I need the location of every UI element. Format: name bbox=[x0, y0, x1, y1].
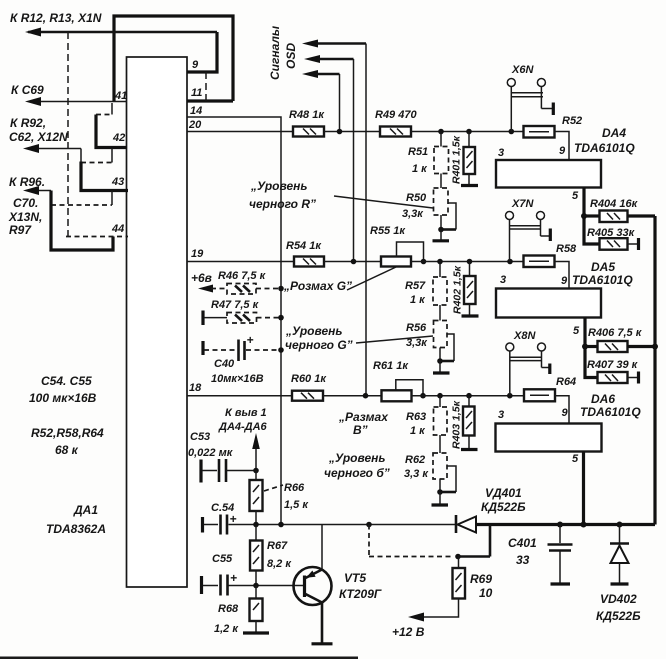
ground R56 bbox=[439, 361, 441, 372]
arrow +6v bbox=[198, 285, 213, 293]
svg-text:42: 42 bbox=[112, 132, 125, 144]
resistor R47 dashed bbox=[227, 313, 257, 324]
svg-text:R50: R50 bbox=[406, 192, 427, 204]
wire R64 to pin9 bbox=[555, 396, 569, 424]
wire K C69 line pin41 bbox=[29, 101, 127, 103]
wire pin 20 row bbox=[187, 131, 293, 133]
wire R50 wiper bbox=[448, 203, 456, 230]
capacitor C40 bbox=[237, 340, 240, 362]
node R402 bbox=[467, 259, 473, 265]
dashed link pin9-pin11 bbox=[205, 72, 207, 101]
OSD arrow 2 bbox=[304, 55, 320, 63]
svg-text:X6N: X6N bbox=[511, 64, 534, 76]
resistor R401 bbox=[468, 132, 470, 148]
svg-text:ТDА8362А: ТDА8362А bbox=[46, 522, 106, 536]
wire K R92 line bbox=[27, 148, 81, 150]
svg-text:1 к: 1 к bbox=[412, 163, 428, 175]
node VD402 bbox=[617, 522, 623, 528]
svg-text:41: 41 bbox=[114, 90, 127, 102]
resistor R404 bbox=[600, 211, 628, 223]
svg-text:„Уровень: „Уровень bbox=[328, 451, 385, 465]
ground R50 bbox=[440, 230, 442, 241]
wire R404 to bus bbox=[628, 214, 656, 217]
svg-text:„Размах: „Размах bbox=[338, 410, 389, 424]
resistor R69 bbox=[458, 557, 460, 569]
svg-text:КД522Б: КД522Б bbox=[481, 500, 526, 514]
resistor R51 dashed bbox=[440, 132, 442, 147]
svg-text:33: 33 bbox=[516, 553, 530, 567]
dashed jog pin42 bbox=[96, 114, 112, 116]
svg-text:DA5: DA5 bbox=[591, 260, 615, 274]
svg-text:„Уровень: „Уровень bbox=[285, 324, 342, 338]
svg-text:С401: С401 bbox=[508, 536, 537, 550]
wire link up to pin42 line bbox=[111, 149, 113, 163]
resistor R402 bbox=[469, 262, 471, 277]
node R56 bbox=[437, 358, 443, 364]
svg-text:1 к: 1 к bbox=[410, 294, 426, 306]
wire down from K R92 bbox=[80, 149, 82, 164]
right bus bbox=[653, 216, 656, 525]
wire pin 18 row bbox=[187, 395, 292, 397]
arrow K R12 bbox=[25, 28, 41, 37]
svg-text:R402 1,5к: R402 1,5к bbox=[452, 265, 464, 314]
svg-text:VD402: VD402 bbox=[600, 592, 637, 606]
svg-text:R49 470: R49 470 bbox=[375, 109, 417, 121]
svg-text:Сигналы: Сигналы bbox=[268, 25, 282, 80]
arrow K R92 bbox=[23, 144, 39, 153]
arrow K C69 bbox=[25, 97, 41, 106]
resistor R50 dashed bbox=[440, 174, 442, 189]
wire pin5 DA5 bbox=[585, 318, 598, 378]
svg-text:С53: С53 bbox=[190, 431, 210, 443]
svg-text:R68: R68 bbox=[218, 603, 239, 615]
wire pin 42 bbox=[96, 115, 127, 148]
svg-text:+6в: +6в bbox=[191, 271, 212, 285]
svg-text:ТDА6101Q: ТDА6101Q bbox=[574, 141, 635, 155]
node C401 bbox=[557, 522, 563, 528]
wire pin5 DA4 bbox=[584, 188, 600, 244]
wire bbox=[411, 261, 524, 263]
diode VD402 bbox=[619, 525, 621, 544]
svg-text:ТDА6101Q: ТDА6101Q bbox=[580, 405, 641, 419]
svg-text:R406 7,5 к: R406 7,5 к bbox=[588, 327, 643, 339]
op-amp DA5 bbox=[496, 289, 601, 318]
terminal C54 bbox=[201, 517, 204, 533]
svg-text:К выв 1: К выв 1 bbox=[225, 407, 267, 419]
node C40 bbox=[278, 347, 284, 353]
node OSD2 bbox=[351, 259, 357, 265]
svg-text:С70.: С70. bbox=[13, 196, 38, 210]
svg-text:14: 14 bbox=[190, 105, 202, 117]
capacitor C54 bbox=[219, 515, 222, 535]
OSD arrow 1 bbox=[302, 40, 318, 48]
svg-text:R54 1к: R54 1к bbox=[286, 240, 322, 252]
svg-text:R405 33к: R405 33к bbox=[587, 227, 636, 239]
svg-text:+: + bbox=[230, 512, 237, 526]
svg-text:18: 18 bbox=[189, 382, 202, 394]
svg-text:„Розмах G”: „Розмах G” bbox=[283, 279, 352, 293]
svg-text:R52,R58,R64: R52,R58,R64 bbox=[31, 426, 104, 440]
svg-text:R404 16к: R404 16к bbox=[590, 198, 639, 210]
OSD wire 2 vertical bbox=[353, 59, 355, 262]
svg-text:„Уровень: „Уровень bbox=[250, 179, 307, 193]
wire thick K R96 to pin44 bbox=[51, 191, 113, 251]
resistor R66 bbox=[255, 471, 257, 481]
svg-text:DA6: DA6 bbox=[591, 392, 615, 406]
resistor R57 dashed bbox=[439, 262, 441, 278]
svg-text:5: 5 bbox=[572, 453, 579, 465]
svg-text:R58: R58 bbox=[556, 243, 577, 255]
svg-text:С62, X12N: С62, X12N bbox=[9, 130, 68, 144]
OSD arrow 3 bbox=[302, 70, 318, 78]
pointer R66 bbox=[264, 485, 283, 491]
IC DA1 body bbox=[127, 57, 188, 587]
arrow K R96 bbox=[23, 186, 39, 195]
wire pin 19 row bbox=[187, 261, 294, 263]
terminal C53 bbox=[199, 460, 202, 483]
wire R69 link bbox=[458, 555, 490, 558]
svg-text:черного G”: черного G” bbox=[285, 338, 353, 352]
resistor R46 dashed bbox=[227, 284, 256, 295]
svg-text:8,2 к: 8,2 к bbox=[267, 558, 292, 570]
svg-text:С40: С40 bbox=[214, 358, 235, 370]
svg-text:R403 1,5к: R403 1,5к bbox=[451, 400, 463, 449]
resistor R405 bbox=[600, 238, 628, 250]
svg-text:3: 3 bbox=[500, 274, 506, 286]
svg-text:68 к: 68 к bbox=[55, 443, 79, 457]
svg-text:5: 5 bbox=[572, 190, 579, 202]
svg-text:R47 7,5 к: R47 7,5 к bbox=[211, 299, 260, 311]
node C55/base bbox=[253, 583, 259, 589]
node R69 top bbox=[455, 554, 461, 560]
svg-text:R56: R56 bbox=[406, 322, 427, 334]
wire bbox=[324, 131, 380, 133]
node R47 bbox=[278, 315, 284, 321]
wire R50 bottom bbox=[440, 215, 442, 230]
svg-text:9: 9 bbox=[559, 145, 566, 157]
svg-text:1,5 к: 1,5 к bbox=[284, 499, 309, 511]
terminal R47 bbox=[201, 311, 204, 326]
terminal R405 bbox=[628, 243, 638, 245]
svg-text:R69: R69 bbox=[470, 572, 492, 586]
svg-text:R97: R97 bbox=[9, 223, 32, 237]
svg-text:R46 7,5 к: R46 7,5 к bbox=[218, 270, 267, 282]
svg-text:1,2 к: 1,2 к bbox=[214, 623, 239, 635]
dashed horiz net 43 bbox=[51, 204, 112, 206]
wire pin5 DA6 bbox=[582, 452, 585, 525]
wire R406 to bus bbox=[628, 345, 656, 348]
resistor R407 bbox=[598, 372, 628, 383]
resistor R54 bbox=[294, 257, 324, 267]
svg-text:В”: В” bbox=[353, 423, 368, 437]
svg-text:черного б”: черного б” bbox=[324, 466, 390, 480]
pointer line G1 bbox=[347, 267, 396, 290]
OSD wire 1 vertical bbox=[365, 44, 367, 396]
node R401 bbox=[466, 129, 472, 135]
wire R62 wiper bbox=[447, 466, 456, 492]
top power bus loop bbox=[114, 16, 233, 101]
wire R56 bottom bbox=[439, 348, 441, 362]
resistor R55 trimmer bbox=[381, 257, 411, 267]
svg-text:С.54: С.54 bbox=[211, 502, 234, 514]
svg-text:VД401: VД401 bbox=[485, 486, 522, 500]
svg-text:19: 19 bbox=[191, 248, 204, 260]
pointer line R bbox=[334, 196, 433, 208]
dashed drop to R69 bbox=[368, 525, 370, 557]
node dash drop bbox=[366, 522, 372, 528]
node OSD3 bbox=[337, 129, 343, 135]
svg-text:DA4: DA4 bbox=[602, 126, 626, 140]
op-amp DA4 bbox=[496, 160, 601, 188]
wire thick to pin 43 bbox=[81, 162, 128, 191]
resistor R61 trimmer bbox=[382, 390, 412, 401]
wire R69 to +12V bbox=[413, 599, 459, 618]
svg-text:ТDА6101Q: ТDА6101Q bbox=[572, 273, 633, 287]
resistor R56 dashed bbox=[439, 305, 441, 321]
resistor R406 bbox=[598, 341, 628, 352]
wire R46 right bbox=[256, 288, 281, 290]
svg-text:VТ5: VТ5 bbox=[344, 571, 366, 585]
svg-text:+12 В: +12 В bbox=[392, 625, 425, 639]
wire collector ground bbox=[321, 603, 324, 643]
svg-text:R55 1к: R55 1к bbox=[370, 225, 406, 237]
svg-text:OSD: OSD bbox=[284, 43, 298, 69]
svg-text:R66: R66 bbox=[284, 482, 305, 494]
wire bbox=[323, 395, 382, 397]
wire base net row C54 bbox=[229, 524, 457, 526]
svg-text:R62: R62 bbox=[405, 454, 425, 466]
wire link pin43-dash bbox=[111, 191, 113, 206]
node R62 bbox=[437, 489, 443, 495]
wire VD401 to bus bbox=[476, 523, 655, 526]
svg-text:С55: С55 bbox=[212, 553, 233, 565]
svg-text:R52: R52 bbox=[562, 115, 582, 127]
diode VD401 bbox=[455, 515, 458, 533]
capacitor C401 bbox=[559, 525, 561, 544]
resistor R64 bbox=[524, 389, 555, 401]
svg-text:X8N: X8N bbox=[513, 330, 536, 342]
node R55 tap bbox=[421, 259, 427, 265]
node R46 bbox=[278, 286, 284, 292]
svg-text:КД522Б: КД522Б bbox=[596, 609, 641, 623]
svg-text:К R96.: К R96. bbox=[9, 175, 45, 189]
capacitor C53 bbox=[218, 459, 221, 482]
svg-text:+: + bbox=[230, 571, 237, 585]
dashed link to pin42 bbox=[81, 162, 112, 164]
wire C40 right bbox=[246, 349, 281, 351]
wire R62 bottom bbox=[439, 479, 441, 492]
svg-text:3: 3 bbox=[498, 147, 504, 159]
svg-text:100 мк×16В: 100 мк×16В bbox=[29, 391, 97, 405]
svg-text:5: 5 bbox=[573, 325, 580, 337]
ground R402 bbox=[469, 304, 471, 315]
resistor R49 bbox=[380, 127, 411, 137]
svg-text:С54. С55: С54. С55 bbox=[41, 374, 92, 388]
resistor R62 dashed bbox=[439, 435, 441, 453]
node X7N/pin3 bbox=[507, 259, 513, 265]
svg-text:20: 20 bbox=[188, 119, 202, 131]
svg-text:44: 44 bbox=[111, 223, 124, 235]
svg-text:R67: R67 bbox=[267, 540, 288, 552]
node R61 tap bbox=[420, 393, 426, 399]
svg-text:R407 39 к: R407 39 к bbox=[587, 359, 639, 371]
resistor R58 bbox=[524, 256, 555, 268]
svg-text:черного R”: черного R” bbox=[249, 197, 316, 211]
wire R47 right bbox=[257, 317, 282, 319]
svg-text:К С69: К С69 bbox=[11, 83, 44, 97]
svg-text:9: 9 bbox=[192, 59, 199, 71]
node X8N/pin3 bbox=[507, 393, 513, 399]
svg-text:R64: R64 bbox=[556, 376, 576, 388]
wire pin 14 bbox=[187, 117, 281, 525]
svg-text:43: 43 bbox=[111, 176, 124, 188]
svg-text:11: 11 bbox=[191, 87, 202, 99]
arrow up to K vyv1 bbox=[255, 447, 257, 471]
svg-text:К R92,: К R92, bbox=[10, 116, 46, 130]
node DA6 pin5 bbox=[581, 522, 587, 528]
wire bbox=[324, 261, 381, 263]
terminal R407 bbox=[628, 377, 638, 379]
node R63 bbox=[437, 393, 443, 399]
transistor VT5 bbox=[294, 567, 332, 605]
resistor R48 bbox=[293, 127, 324, 137]
node R403 bbox=[466, 393, 472, 399]
scan edge bottom bbox=[0, 657, 358, 659]
op-amp DA6 bbox=[496, 424, 602, 452]
svg-text:3,3 к: 3,3 к bbox=[404, 468, 429, 480]
wire emitter up bbox=[321, 525, 323, 570]
svg-text:1 к: 1 к bbox=[410, 425, 426, 437]
node R57 bbox=[437, 259, 443, 265]
svg-text:КТ209Г: КТ209Г bbox=[339, 587, 382, 601]
node C53 bbox=[253, 468, 259, 474]
wire bbox=[411, 131, 524, 133]
wire R58 to pin9 bbox=[555, 262, 570, 289]
node R50 bbox=[438, 227, 444, 233]
ground R403 bbox=[468, 436, 470, 449]
wire R52 to pin9 bbox=[555, 132, 570, 161]
svg-text:R51: R51 bbox=[408, 146, 428, 158]
svg-text:10мк×16В: 10мк×16В bbox=[211, 373, 264, 385]
terminal C55 bbox=[200, 576, 203, 594]
ground R401 bbox=[468, 174, 470, 185]
ground R68 bbox=[255, 621, 257, 632]
wire R56 wiper bbox=[447, 334, 454, 361]
resistor R52 bbox=[524, 126, 555, 138]
svg-text:R61 1к: R61 1к bbox=[373, 360, 409, 372]
wire bbox=[412, 395, 525, 397]
dashed pin 44 line bbox=[66, 236, 128, 238]
wire pin 11 stub bbox=[187, 99, 233, 102]
wire K R12 line bbox=[28, 31, 217, 34]
resistor R68 bbox=[255, 586, 257, 599]
node X6N/pin3 bbox=[509, 129, 515, 135]
svg-text:X13N,: X13N, bbox=[8, 210, 42, 224]
svg-text:ДА1: ДА1 bbox=[73, 503, 98, 517]
svg-text:X7N: X7N bbox=[511, 198, 534, 210]
svg-text:R401 1,5к: R401 1,5к bbox=[451, 135, 463, 184]
svg-text:+: + bbox=[247, 333, 254, 347]
pointer line G2 bbox=[356, 336, 433, 343]
capacitor C55 bbox=[219, 575, 222, 596]
svg-text:0,022 мк: 0,022 мк bbox=[188, 447, 234, 459]
terminal C40 bbox=[201, 341, 204, 355]
svg-text:10: 10 bbox=[479, 586, 493, 600]
svg-text:9: 9 bbox=[561, 275, 568, 287]
svg-text:ДА4-ДА6: ДА4-ДА6 bbox=[218, 421, 268, 433]
svg-text:R60 1к: R60 1к bbox=[291, 373, 327, 385]
node R51 bbox=[438, 129, 444, 135]
resistor R403 bbox=[468, 396, 470, 407]
wire jog pin42 bbox=[111, 103, 113, 115]
node R66/R67 bbox=[253, 522, 259, 528]
dashed vertical net bbox=[67, 32, 69, 237]
resistor R60 bbox=[292, 391, 323, 401]
svg-text:R57: R57 bbox=[405, 280, 426, 292]
svg-text:К R12, R13, X1N: К R12, R13, X1N bbox=[10, 11, 102, 25]
OSD wire 3 vertical bbox=[339, 74, 341, 132]
resistor R63 dashed bbox=[439, 396, 441, 407]
wire pin 9 stub bbox=[187, 32, 217, 72]
svg-text:R63: R63 bbox=[406, 411, 426, 423]
svg-text:3,3к: 3,3к bbox=[402, 208, 424, 220]
svg-text:9: 9 bbox=[562, 407, 569, 419]
svg-text:3: 3 bbox=[498, 409, 504, 421]
svg-text:R48 1к: R48 1к bbox=[289, 109, 325, 121]
node OSD1 bbox=[363, 393, 369, 399]
ground R62 bbox=[439, 492, 441, 504]
resistor R67 bbox=[255, 525, 257, 541]
wire K R96 line bbox=[27, 190, 51, 192]
node pin14 vert bbox=[278, 522, 284, 528]
